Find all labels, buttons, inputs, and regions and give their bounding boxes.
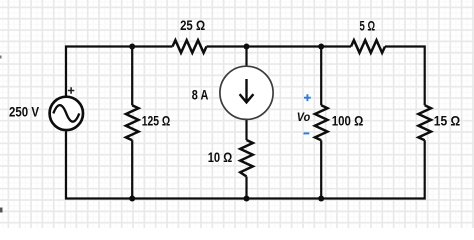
wire top: node A segment from source to 25ohm — [66, 47, 173, 96]
svg-text:8 A: 8 A — [192, 88, 209, 103]
junction node top-current-source — [244, 44, 250, 50]
resistor R1 125ohm zigzag — [126, 105, 139, 140]
wire 125ohm top lead — [131, 47, 133, 106]
wire 100ohm bottom lead — [320, 140, 322, 198]
label Vo minus sign (blue) — [304, 132, 310, 134]
junction node top-100 — [318, 44, 324, 50]
wire bottom rail — [66, 132, 425, 199]
wire current-source to 10ohm lead — [245, 119, 247, 140]
junction node bottom-10 — [244, 196, 250, 202]
svg-text:250 V: 250 V — [9, 105, 40, 120]
svg-text:100 Ω: 100 Ω — [332, 114, 364, 129]
label Vo plus sign (blue) — [304, 94, 311, 101]
resistor R3 10ohm zigzag — [240, 140, 253, 177]
wire 100ohm top lead — [320, 47, 322, 106]
current source I1 8A circle — [220, 66, 273, 119]
junction node top-125 — [129, 44, 135, 50]
svg-text:15 Ω: 15 Ω — [434, 114, 460, 129]
voltage source sine wave — [53, 105, 79, 121]
wire top-right: from 5ohm to right corner down to 15ohm — [385, 47, 425, 106]
wire 125ohm bottom lead — [131, 140, 133, 198]
resistor R6 15ohm zigzag — [418, 105, 431, 140]
junction node bottom-100 — [318, 196, 324, 202]
voltage source plus polarity mark — [68, 87, 74, 93]
svg-text:5 Ω: 5 Ω — [360, 19, 376, 34]
svg-text:Vo: Vo — [297, 110, 310, 124]
junction node bottom-125 — [129, 196, 135, 202]
svg-text:25 Ω: 25 Ω — [180, 18, 205, 33]
wire top: between 25ohm and 5ohm — [207, 45, 352, 47]
current source arrow — [240, 79, 254, 102]
wire current-source top lead — [245, 47, 247, 67]
svg-text:125 Ω: 125 Ω — [142, 114, 171, 129]
svg-text:10 Ω: 10 Ω — [208, 150, 233, 165]
wire 10ohm bottom lead — [245, 177, 247, 199]
voltage source V1 250V circle — [50, 97, 83, 130]
resistor R5 100ohm zigzag — [315, 105, 328, 140]
resistor R2 25ohm zigzag — [173, 40, 207, 53]
resistor R4 5ohm zigzag — [351, 40, 385, 53]
